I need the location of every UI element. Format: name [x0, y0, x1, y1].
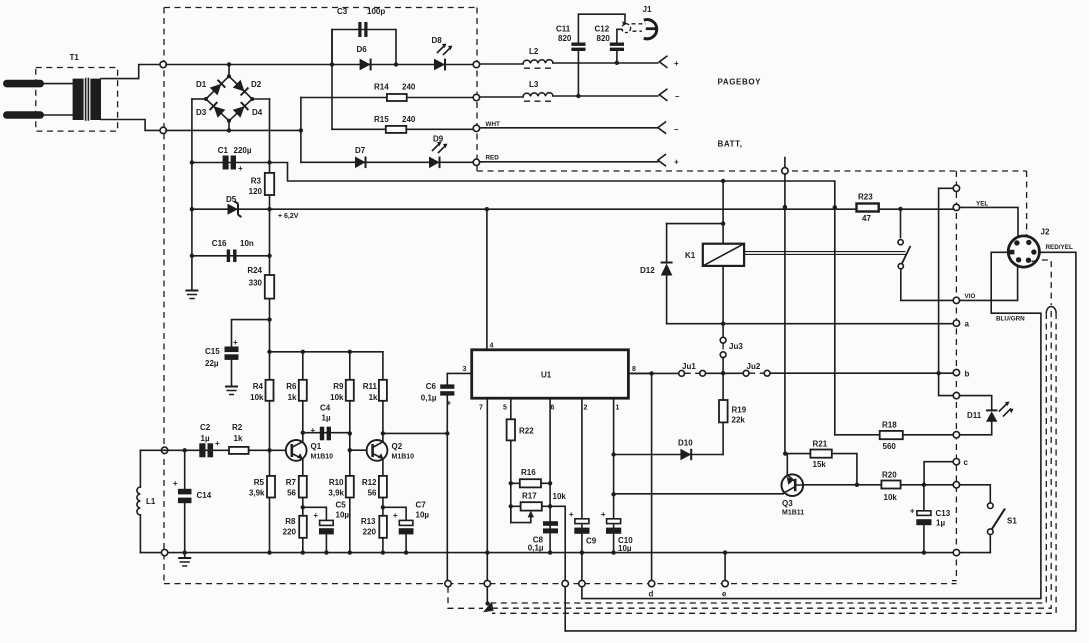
- svg-text:Q3: Q3: [782, 499, 793, 508]
- svg-text:L2: L2: [529, 47, 539, 56]
- svg-text:+: +: [215, 439, 220, 448]
- junction x938 on b-row: [936, 371, 940, 375]
- svg-text:L1: L1: [146, 497, 156, 506]
- svg-text:D4: D4: [252, 108, 263, 117]
- wire R18 row: [835, 434, 953, 436]
- svg-text:220µ: 220µ: [234, 146, 252, 155]
- svg-text:C16: C16: [212, 239, 227, 248]
- svg-text:D2: D2: [251, 80, 262, 89]
- svg-text:M1B11: M1B11: [782, 510, 804, 517]
- node circle RED/YEL exit: [562, 580, 568, 586]
- svg-text:a: a: [965, 320, 970, 329]
- wire R21 row: [785, 454, 857, 485]
- svg-text:R19: R19: [732, 406, 747, 415]
- svg-text:10µ: 10µ: [336, 511, 350, 520]
- junction rail at x192: [190, 207, 194, 211]
- svg-text:R17: R17: [522, 492, 537, 501]
- capacitor C11: [556, 25, 586, 52]
- relay K1 coil: [685, 244, 744, 266]
- wire emitter row to S1: [960, 485, 991, 503]
- resistor R16: [520, 468, 541, 487]
- svg-text:C13: C13: [936, 509, 951, 518]
- svg-text:C11: C11: [556, 25, 571, 34]
- svg-text:D9: D9: [433, 135, 444, 144]
- main ground rail: [140, 552, 990, 554]
- svg-text:R5: R5: [254, 478, 265, 487]
- wire C7 branch: [383, 507, 406, 552]
- transistor Q3: [782, 474, 805, 516]
- junction a-row at K1 column: [721, 322, 725, 326]
- wire RED/YEL below node: [564, 587, 566, 631]
- wire BLU/GRN routing: [582, 252, 1041, 598]
- diode D1 upper-left arm: [210, 80, 226, 96]
- wire R6 Q1 R7 R8 column: [302, 352, 304, 553]
- node circle test point C6: [445, 580, 451, 586]
- svg-text:1k: 1k: [369, 393, 378, 402]
- node circle batt sense 2: [953, 185, 959, 191]
- mains plug prong 2: [3, 111, 44, 119]
- svg-text:10k: 10k: [250, 393, 264, 402]
- svg-text:L3: L3: [529, 80, 539, 89]
- wire a-row: [667, 323, 954, 325]
- wire main left column x269: [269, 99, 271, 553]
- svg-text:b: b: [965, 370, 970, 379]
- svg-text:22µ: 22µ: [205, 359, 219, 368]
- capacitor C12: [595, 25, 625, 52]
- arrow pageboy -: [659, 89, 680, 101]
- pcb dashed border bottom: [164, 583, 956, 585]
- junction rail C5: [324, 550, 328, 554]
- wire R14 row: [301, 97, 473, 99]
- svg-text:1µ: 1µ: [201, 434, 210, 443]
- wire C4 coupling row: [303, 432, 350, 434]
- connector J2: [1008, 228, 1050, 268]
- capacitor C7: [393, 501, 430, 535]
- node circle VIO: [953, 297, 959, 303]
- svg-text:+: +: [313, 511, 318, 520]
- svg-text:220: 220: [283, 528, 297, 537]
- capacitor C10: [601, 510, 633, 553]
- svg-text:1k: 1k: [234, 434, 243, 443]
- junction batt rail joins 6.2V rail: [833, 205, 837, 209]
- relay contact fixed: [898, 240, 903, 245]
- transformer T1 dashed box: [36, 68, 118, 132]
- inductor L3: [523, 80, 553, 101]
- svg-text:C2: C2: [200, 423, 211, 432]
- svg-text:R8: R8: [285, 517, 296, 526]
- resistor R9: [330, 380, 354, 402]
- svg-text:R24: R24: [247, 266, 262, 275]
- wire C12 top to J1 tip: [617, 29, 621, 42]
- svg-text:D3: D3: [196, 108, 207, 117]
- svg-text:D12: D12: [640, 266, 655, 275]
- arrow WHT -: [658, 122, 679, 134]
- wire C12 bottom to plus row: [616, 51, 618, 63]
- wire BLU/GRN below node: [581, 587, 583, 599]
- wire pin8 output column to node d: [651, 373, 653, 580]
- pcb dashed border left: [163, 8, 165, 584]
- junction bridge top on AC row: [227, 62, 231, 66]
- inductor L2: [523, 47, 553, 68]
- wire bridge right output: [252, 98, 269, 100]
- svg-text:U1: U1: [541, 371, 552, 380]
- svg-text:VIO: VIO: [965, 293, 976, 300]
- svg-text:R15: R15: [374, 115, 389, 124]
- jumper Ju3: [720, 337, 743, 357]
- svg-text:M1B10: M1B10: [311, 454, 334, 461]
- svg-text:1µ: 1µ: [936, 519, 945, 528]
- svg-text:+: +: [601, 510, 606, 519]
- junction R17 left: [509, 504, 513, 508]
- trimmer R17: [511, 492, 542, 523]
- node circle c: [953, 459, 959, 465]
- wire x938 to node circle row: [939, 373, 954, 395]
- junction R16 left: [509, 481, 513, 485]
- switch S1: [988, 503, 1018, 553]
- wire C3 bracket over D6: [332, 30, 396, 65]
- svg-text:+: +: [910, 507, 915, 516]
- svg-text:RED: RED: [486, 155, 500, 162]
- svg-text:100p: 100p: [367, 7, 385, 16]
- junction relay contact on 6.2V rail: [898, 207, 902, 211]
- wire pageboy+ row: [480, 63, 658, 64]
- diode D2 upper-right arm: [233, 80, 249, 96]
- relay contact lever: [902, 246, 911, 264]
- svg-text:K1: K1: [685, 251, 696, 260]
- wire D7 D9 row: [301, 161, 473, 163]
- svg-text:R7: R7: [286, 478, 297, 487]
- junction rail R5: [267, 550, 271, 554]
- diode D10: [678, 439, 693, 461]
- junction C3 left: [330, 62, 334, 66]
- wire L1 column: [139, 450, 141, 552]
- svg-text:560: 560: [883, 442, 897, 451]
- wire Q3 emitter R20 row: [803, 484, 953, 486]
- wire AC bottom row: [166, 129, 301, 131]
- junction C8 on rail: [548, 550, 552, 554]
- LED D9: [429, 135, 448, 169]
- capacitor C13: [910, 485, 951, 553]
- capacitor C15: [205, 338, 239, 386]
- junction C15 branch: [267, 317, 271, 321]
- svg-text:J2: J2: [1041, 228, 1050, 237]
- svg-text:R13: R13: [361, 517, 376, 526]
- wire C11 top to J1: [578, 14, 625, 42]
- junction Q2 collector row: [381, 431, 385, 435]
- svg-text:1k: 1k: [288, 393, 297, 402]
- svg-text:e: e: [722, 590, 727, 599]
- node circle pageboy- on border: [473, 94, 479, 100]
- svg-text:+: +: [393, 511, 398, 520]
- junction base row x269: [267, 448, 271, 452]
- svg-text:D8: D8: [432, 36, 443, 45]
- transistor Q1: [286, 440, 333, 461]
- svg-text:C6: C6: [426, 382, 437, 391]
- svg-text:R10: R10: [329, 478, 344, 487]
- wire c node branch: [924, 462, 953, 485]
- svg-text:R22: R22: [519, 427, 534, 436]
- svg-text:8: 8: [632, 366, 636, 373]
- wire Ju3 to b-row: [722, 358, 724, 374]
- arrow BATT +: [658, 155, 679, 167]
- svg-text:R21: R21: [813, 440, 828, 449]
- resistor R10: [328, 476, 353, 498]
- junction b-row R19: [721, 371, 725, 375]
- junction C1 left: [190, 160, 194, 164]
- wire Q3 collector: [786, 454, 788, 476]
- svg-text:820: 820: [558, 34, 572, 43]
- wire R9 R10 column: [349, 352, 351, 553]
- svg-text:T1: T1: [70, 53, 80, 62]
- capacitor C2: [199, 423, 220, 457]
- svg-text:+: +: [233, 338, 238, 347]
- junction C13 on rail: [922, 550, 926, 554]
- svg-text:820: 820: [597, 34, 611, 43]
- ground symbol bridge column: [185, 291, 198, 299]
- junction rail C7: [404, 550, 408, 554]
- wire R18 column x836: [834, 207, 836, 434]
- svg-text:R20: R20: [882, 471, 897, 480]
- wire Q2 collector to C6: [383, 432, 447, 434]
- svg-text:10k: 10k: [553, 492, 567, 501]
- IC U1 box: [472, 350, 629, 398]
- diode D12: [640, 224, 673, 324]
- resistor R15: [374, 115, 416, 133]
- svg-text:–: –: [674, 125, 679, 134]
- junction R21 on emitter row: [855, 483, 859, 487]
- svg-text:3,9k: 3,9k: [249, 489, 265, 498]
- resistor R6: [286, 380, 307, 402]
- resistor R19: [719, 373, 747, 454]
- junction rail R13: [381, 550, 385, 554]
- junction rail at x269: [267, 207, 271, 211]
- relay actuator double link: [744, 252, 905, 255]
- svg-text:120: 120: [249, 187, 263, 196]
- junction pin1 Q3 row: [611, 492, 615, 496]
- node circle D11 anode: [953, 392, 959, 398]
- capacitor C16: [212, 239, 254, 262]
- pcb dashed border y171: [477, 170, 1027, 172]
- wire U1 pin5 column: [510, 398, 512, 522]
- node circle RED on border: [473, 159, 479, 165]
- node circle e: [722, 580, 728, 586]
- zener D5: [226, 195, 241, 217]
- node circle emitter row exit: [953, 482, 959, 488]
- bus junction arrow: [483, 602, 494, 613]
- svg-text:0,1µ: 0,1µ: [421, 394, 437, 403]
- resistor R21: [810, 440, 831, 470]
- wire K1 D12 branch from batt rail: [722, 181, 724, 244]
- junction Q3 collector R21: [783, 451, 787, 455]
- wire U1 pin6 column: [549, 398, 551, 552]
- node circle YEL: [953, 204, 959, 210]
- junction R7 bottom: [301, 505, 305, 509]
- svg-text:7: 7: [479, 405, 483, 412]
- node circle b: [953, 369, 959, 375]
- svg-text:C15: C15: [205, 347, 220, 356]
- wire pageboy- row: [480, 96, 658, 97]
- wire U1 pin4 from rail: [486, 209, 488, 350]
- svg-text:D7: D7: [355, 146, 366, 155]
- svg-text:M1B10: M1B10: [392, 454, 415, 461]
- wire U1 pin2 column: [581, 398, 583, 580]
- svg-text:C4: C4: [320, 404, 331, 413]
- junction D12 top: [721, 221, 725, 225]
- svg-text:RED/YEL: RED/YEL: [1046, 244, 1073, 251]
- junction pin7 on rail: [485, 550, 489, 554]
- svg-text:6: 6: [551, 405, 555, 412]
- wire b-row: [628, 372, 953, 374]
- svg-text:10µ: 10µ: [416, 511, 430, 520]
- svg-text:R18: R18: [882, 421, 897, 430]
- resistor R23: [857, 193, 879, 224]
- resistor R22: [507, 419, 535, 440]
- wire batt sense column x785: [784, 174, 786, 454]
- resistor R4: [250, 380, 273, 402]
- junction C16 right: [267, 254, 271, 258]
- svg-text:+ 6,2V: + 6,2V: [278, 213, 299, 220]
- svg-text:R16: R16: [521, 468, 536, 477]
- junction rail R6: [301, 350, 305, 354]
- svg-text:WHT: WHT: [486, 121, 500, 128]
- svg-text:YEL: YEL: [976, 201, 988, 208]
- svg-text:47: 47: [862, 214, 871, 223]
- ground symbol C15: [225, 387, 238, 395]
- diode D4 lower-right arm: [233, 102, 249, 118]
- junction C3 right: [394, 62, 398, 66]
- svg-text:+: +: [674, 59, 679, 68]
- svg-text:c: c: [964, 458, 969, 467]
- svg-text:C12: C12: [595, 25, 610, 34]
- node circle d: [648, 580, 654, 586]
- transformer T1 primary winding bar: [73, 79, 84, 120]
- svg-text:–: –: [675, 92, 680, 101]
- svg-text:240: 240: [402, 115, 416, 124]
- wire relay contact to VIO row: [901, 269, 953, 301]
- svg-text:D10: D10: [678, 439, 693, 448]
- wire YEL to J2: [960, 207, 1018, 238]
- svg-text:22k: 22k: [732, 416, 746, 425]
- node circle BLU/GRN exit: [579, 580, 585, 586]
- node circle audio input on border: [161, 447, 167, 453]
- arrow pageboy +: [659, 56, 679, 68]
- bridge corner dots: [227, 74, 231, 78]
- LED D11: [960, 396, 1014, 435]
- junction pin4 on rail: [485, 207, 489, 211]
- wire K1 bottom to Ju3: [722, 266, 724, 337]
- dashed drop to J2: [1026, 171, 1028, 235]
- capacitor C5: [313, 501, 349, 535]
- transformer T1 core lines: [86, 79, 89, 120]
- svg-text:Ju3: Ju3: [729, 342, 743, 351]
- capacitor C9: [569, 510, 597, 546]
- junction R17 right: [548, 504, 552, 508]
- wire C1 row: [192, 162, 270, 164]
- svg-text:+: +: [238, 164, 243, 173]
- resistor R11: [363, 380, 387, 402]
- svg-text:D6: D6: [357, 45, 368, 54]
- capacitor C3: [337, 7, 385, 37]
- svg-text:C3: C3: [337, 7, 348, 16]
- svg-text:R23: R23: [858, 193, 873, 202]
- wire U1 pin3 to C6: [447, 373, 471, 384]
- wire Q2 base stub: [350, 449, 370, 451]
- junction C14 top: [183, 448, 187, 452]
- wire U1 pin1 column: [613, 398, 615, 552]
- svg-text:10n: 10n: [240, 239, 254, 248]
- svg-text:R6: R6: [286, 382, 297, 391]
- +6.2V rail: [192, 208, 953, 210]
- svg-text:10k: 10k: [330, 393, 344, 402]
- dashed loop center leg: [492, 311, 1051, 608]
- svg-text:BLU/GRN: BLU/GRN: [996, 316, 1025, 323]
- wire bridge left output: [192, 98, 206, 100]
- junction x301 on AC bottom: [299, 128, 303, 132]
- capacitor C1: [218, 146, 252, 173]
- wire T1 secondary bottom to border: [101, 120, 163, 131]
- junction C11 on minus row: [576, 94, 580, 98]
- ground symbol main rail: [178, 553, 191, 566]
- dashed loop left leg: [492, 313, 1046, 603]
- svg-text:R11: R11: [363, 382, 378, 391]
- wire R11 Q2 R12 R13 column: [382, 352, 384, 553]
- junction rail e stub: [723, 550, 727, 554]
- junction R16 right: [548, 481, 552, 485]
- junction x785 on 6.2V rail: [783, 205, 787, 209]
- LED D8: [432, 36, 453, 70]
- wire C14 branch: [184, 450, 186, 552]
- wire Q3 base row: [614, 493, 783, 495]
- wire R16 row: [511, 482, 550, 484]
- dashed RED/YEL from J2 pin: [1032, 260, 1052, 305]
- resistor R14: [374, 83, 416, 102]
- wire C11 bottom to minus row: [577, 51, 579, 96]
- svg-text:Ju1: Ju1: [682, 362, 696, 371]
- wire D10 row: [614, 454, 724, 456]
- resistor R12: [362, 476, 387, 498]
- node circle WHT on border: [473, 125, 479, 131]
- wire VIO to J2: [960, 266, 1018, 300]
- junction b-row pin8: [649, 371, 653, 375]
- wire WHT row: [480, 127, 658, 129]
- bridge bottom stub: [228, 121, 230, 131]
- capacitor C8: [528, 521, 558, 552]
- svg-text:BATT,: BATT,: [718, 140, 743, 149]
- svg-text:240: 240: [402, 83, 416, 92]
- svg-text:2: 2: [584, 405, 588, 412]
- node circle a: [953, 320, 959, 326]
- junction C10 on rail: [611, 550, 615, 554]
- mains plug prong 1: [3, 80, 44, 88]
- svg-text:R9: R9: [333, 382, 344, 391]
- capacitor C14: [173, 479, 212, 503]
- junction Q2 base row: [348, 448, 352, 452]
- resistor R7: [286, 476, 307, 498]
- supply rail amplifier: [270, 351, 383, 353]
- junction rail R8: [301, 550, 305, 554]
- node circle pageboy+ on border: [473, 61, 479, 67]
- wire D12 top link: [667, 223, 724, 225]
- junction rail R10: [348, 550, 352, 554]
- junction C13 top: [922, 483, 926, 487]
- junction bus meet: [485, 601, 489, 605]
- svg-text:C7: C7: [416, 501, 427, 510]
- wire C6 bottom column to node row: [446, 396, 448, 581]
- svg-text:D5: D5: [226, 195, 237, 204]
- wire AC top row to D6/D8: [166, 64, 473, 66]
- wire input row to Q1 base: [140, 449, 296, 451]
- svg-text:0,1µ: 0,1µ: [528, 544, 544, 553]
